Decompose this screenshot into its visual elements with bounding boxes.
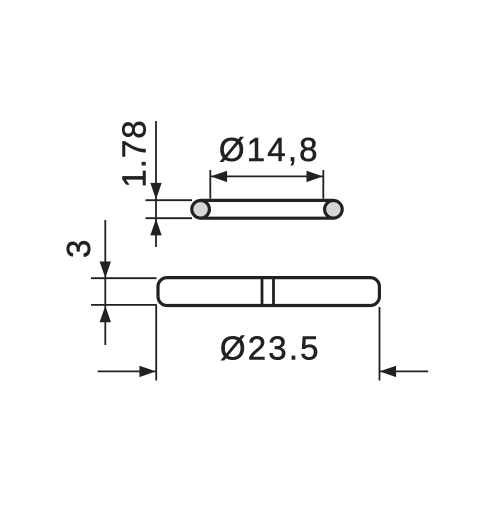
- arrowhead left-pointing of dim Ø23.5: [380, 366, 397, 377]
- svg-text:Ø14,8: Ø14,8: [219, 131, 320, 168]
- side view body rounded rectangle: [158, 278, 379, 306]
- O-ring top tangent line: [201, 199, 334, 202]
- svg-text:Ø23.5: Ø23.5: [220, 330, 321, 367]
- O-ring cross-section circle right: [325, 201, 343, 219]
- svg-text:3: 3: [60, 240, 97, 258]
- extension line right for dim Ø14,8: [322, 170, 324, 199]
- extension line bottom for dim 3: [91, 304, 157, 306]
- extension line bottom for dim 1.78: [146, 217, 193, 219]
- arrowhead left of dim Ø14,8: [211, 171, 228, 182]
- dimension line Ø23.5 left segment: [98, 370, 156, 372]
- arrowhead right-pointing of dim Ø23.5: [139, 366, 156, 377]
- svg-text:1.78: 1.78: [116, 119, 153, 187]
- O-ring cross-section circle left: [192, 201, 210, 219]
- dimension line Ø23.5 right segment: [380, 370, 429, 372]
- extension line left for dim Ø23.5: [155, 305, 157, 381]
- dimension line 1.78: [155, 121, 157, 247]
- arrowhead up of dim 1.78: [150, 219, 161, 236]
- dimension line 3: [104, 220, 106, 345]
- arrowhead up of dim 3: [100, 306, 111, 323]
- dimension line Ø14,8: [210, 175, 323, 177]
- extension line left for dim Ø14,8: [209, 170, 211, 199]
- arrowhead right of dim Ø14,8: [307, 171, 324, 182]
- arrowhead down of dim 3: [100, 262, 111, 279]
- extension line top for dim 1.78: [146, 199, 193, 201]
- arrowhead down of dim 1.78: [150, 183, 161, 200]
- parting line left: [261, 278, 264, 306]
- extension line top for dim 3: [91, 277, 157, 279]
- extension line right for dim Ø23.5: [379, 307, 381, 381]
- O-ring bottom tangent line: [201, 217, 334, 220]
- parting line right: [272, 278, 275, 306]
